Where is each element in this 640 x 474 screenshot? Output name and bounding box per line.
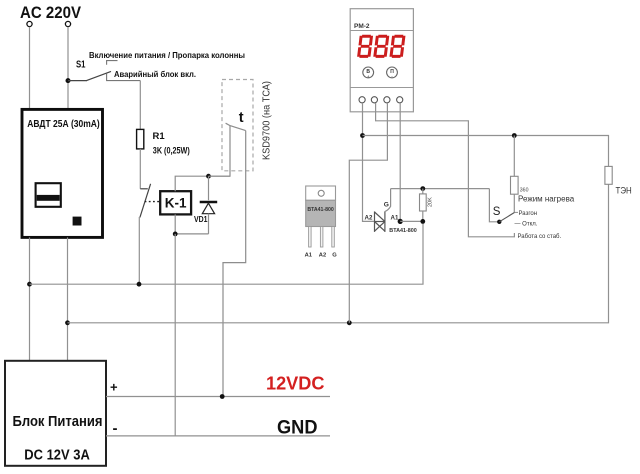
dotted actuator link: [145, 201, 160, 203]
svg-text:G: G: [332, 252, 337, 258]
svg-text:+: +: [367, 74, 370, 79]
svg-text:GND: GND: [277, 417, 318, 438]
svg-text:20K: 20K: [428, 197, 434, 207]
resistor 20K: [422, 189, 424, 194]
wire K-1 top: [175, 176, 230, 191]
breaker rocker: [36, 183, 61, 207]
svg-text:t: t: [239, 110, 244, 126]
svg-text:BTA41-800: BTA41-800: [307, 207, 334, 213]
gate bus: [391, 188, 490, 190]
svg-text:A2: A2: [365, 214, 373, 221]
relay coil K-1: [160, 191, 191, 214]
controller PM-2: [350, 9, 413, 112]
svg-text:АВДТ 25А (30mA): АВДТ 25А (30mA): [27, 118, 100, 130]
wire coil- to GND: [174, 234, 176, 436]
wire t1 bus to TEH top: [363, 136, 609, 167]
node S1 common: [66, 78, 71, 83]
gate lead: [385, 189, 391, 212]
button P-: [387, 67, 398, 78]
N bus to TEH: [68, 184, 609, 322]
svg-text:S: S: [493, 206, 501, 218]
L bus to triac A1: [30, 221, 424, 284]
svg-text:3K (0,25W): 3K (0,25W): [153, 146, 190, 156]
switch S: [489, 189, 499, 222]
terminal 4: [397, 97, 403, 103]
svg-text:ТЭН: ТЭН: [616, 186, 632, 196]
svg-text:+: +: [110, 380, 118, 395]
wire terminal3 to N bus: [349, 103, 387, 323]
svg-text:AC 220V: AC 220V: [20, 4, 81, 22]
terminal 3: [384, 97, 390, 103]
node 360 tap: [512, 133, 517, 138]
svg-text:360: 360: [520, 188, 529, 194]
svg-text:12VDC: 12VDC: [266, 374, 325, 394]
node t1: [360, 133, 365, 138]
svg-text:A1: A1: [305, 252, 313, 258]
wire L-top: [29, 27, 31, 110]
node contact bus: [137, 282, 142, 287]
net 12VDC: [106, 396, 330, 398]
svg-text:VD1: VD1: [194, 215, 208, 224]
terminal 2: [371, 97, 377, 103]
node gate/20K: [420, 186, 425, 191]
svg-text:Аварийный блок вкл.: Аварийный блок вкл.: [114, 70, 196, 79]
wire terminal4 to A1: [399, 103, 401, 221]
switch S1: [68, 61, 140, 81]
svg-text:BTA41-800: BTA41-800: [389, 228, 416, 234]
wire A1 to 20K: [400, 220, 423, 222]
svg-text:Включение питания / Пропарка к: Включение питания / Пропарка колонны: [89, 51, 245, 60]
svg-text:PM-2: PM-2: [354, 23, 370, 30]
terminal L: [27, 21, 32, 26]
svg-text:DC 12V 3A: DC 12V 3A: [24, 447, 90, 463]
svg-text:Работа со стаб.: Работа со стаб.: [518, 234, 562, 240]
svg-text:Разгон: Разгон: [519, 211, 538, 217]
node A1: [398, 219, 403, 224]
node coil-: [173, 232, 178, 237]
node L bus: [27, 282, 32, 287]
svg-text:KSD9700 (на ТСА): KSD9700 (на ТСА): [262, 81, 273, 160]
heater TEH: [605, 166, 612, 184]
wire N-top: [67, 27, 69, 110]
svg-text:S1: S1: [76, 59, 86, 70]
svg-text:G: G: [384, 201, 389, 208]
node c3 bus: [347, 320, 352, 325]
svg-text:Режим нагрева: Режим нагрева: [518, 194, 575, 203]
thermostat contact: [209, 123, 246, 396]
triac package BTA41-800: [306, 186, 336, 200]
power supply unit: [5, 361, 106, 466]
wire terminal2 to S contact: [376, 103, 515, 237]
svg-text:A1: A1: [391, 214, 399, 221]
node 20K/A1 bus: [420, 219, 425, 224]
terminal 1: [359, 97, 365, 103]
resistor R1: [137, 129, 144, 149]
triac symbol BTA41-800: [375, 211, 385, 232]
diode VD1: [208, 176, 210, 200]
resistor 360: [513, 136, 515, 177]
wire contact to bus: [138, 217, 140, 284]
thermostat KSD9700: [222, 80, 253, 171]
terminal N: [65, 21, 70, 26]
breaker АВДТ: [22, 109, 103, 237]
wire N below breaker: [67, 237, 69, 360]
svg-text:-: -: [113, 420, 118, 437]
svg-text:R1: R1: [153, 131, 166, 142]
node N bus: [65, 320, 70, 325]
button B+: [363, 67, 374, 78]
wire to R1: [139, 81, 141, 130]
wire terminal1 to A2: [363, 103, 375, 221]
wire L below breaker: [29, 237, 31, 360]
wire R1 to contact: [139, 149, 141, 189]
breaker indicator: [73, 217, 82, 226]
wire K-1 bottom: [175, 214, 208, 234]
svg-text:— Откл.: — Откл.: [515, 222, 538, 228]
svg-text:Блок Питания: Блок Питания: [13, 414, 103, 430]
display 888: [357, 35, 406, 58]
svg-text:A2: A2: [319, 252, 326, 258]
net GND: [106, 435, 330, 437]
relay contact K-1: [140, 184, 151, 218]
node coil+: [206, 174, 211, 179]
svg-text:K-1: K-1: [165, 196, 187, 211]
